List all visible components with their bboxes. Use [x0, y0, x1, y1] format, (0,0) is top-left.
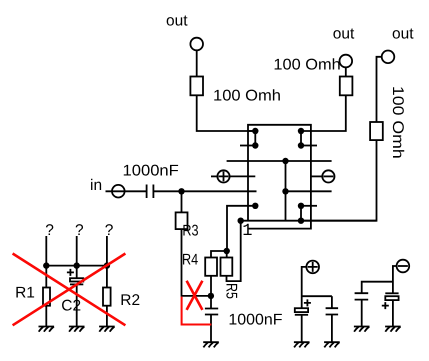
wire net2 vertical	[76, 236, 78, 278]
resistor R4	[205, 258, 217, 276]
svg-text:100 Omh: 100 Omh	[213, 87, 281, 104]
svg-text:in: in	[90, 177, 102, 194]
capacitor 1000nF bottom	[205, 309, 218, 315]
junction dot node R3 top	[178, 188, 184, 194]
ground C2	[69, 327, 85, 332]
IC inner link right rows6-7	[300, 206, 302, 221]
ground bottom cap	[203, 342, 219, 347]
wire node to R3	[181, 191, 183, 212]
svg-text:C2: C2	[61, 298, 81, 315]
ground R1	[39, 327, 55, 332]
IC pin row7 line	[241, 220, 377, 222]
resistor R3	[176, 212, 188, 229]
resistor 100 Omh out1	[190, 77, 203, 96]
wire net1 vertical	[45, 236, 47, 288]
capacitor 1000nF input	[147, 185, 154, 199]
IC inner link right rows1-2	[300, 131, 302, 146]
wire C+ to ground	[301, 315, 303, 342]
capacitor C2+	[326, 308, 339, 314]
wire minus supply branch	[362, 282, 393, 293]
wire minus supply down	[393, 266, 397, 293]
terminal plus supply	[306, 261, 319, 274]
minus bar supply	[398, 265, 408, 267]
plus cross IC left	[219, 172, 229, 182]
wire out2 to R	[345, 67, 347, 76]
ground R2	[99, 327, 115, 332]
IC inner vertical net	[285, 161, 287, 221]
wire C2+ to ground	[331, 315, 333, 342]
IC inner link left rows1-2	[254, 131, 256, 146]
svg-text:1000nF: 1000nF	[228, 312, 282, 329]
IC pin row1 left stub	[248, 130, 255, 132]
terminal minus IC right	[322, 170, 334, 182]
IC pin row2 left stub	[240, 145, 255, 147]
IC pin row4 left stub	[211, 175, 217, 177]
wire R3 down	[182, 229, 211, 296]
resistor 100 Omh out3	[370, 122, 383, 140]
capacitor C2	[70, 278, 83, 284]
wire in stub	[106, 190, 147, 192]
capacitor C- plus sign	[382, 302, 389, 309]
IC pin row5 left segment	[153, 190, 256, 192]
capacitor C+ polarized	[295, 308, 308, 315]
wire R out2 to IC right pin1	[301, 95, 346, 131]
IC pin row6 right stub	[301, 205, 317, 207]
wire plus to IC row4	[230, 175, 256, 177]
wire R out3 to IC right pin7	[301, 140, 377, 221]
svg-text:100 Omh: 100 Omh	[273, 56, 340, 73]
ground C2-	[354, 327, 370, 332]
svg-text:out: out	[333, 26, 355, 43]
terminal out3	[382, 51, 395, 64]
svg-text:100 Omh: 100 Omh	[389, 86, 406, 159]
IC pin row3 crossing line	[227, 160, 332, 162]
IC pin row2 right stub	[301, 145, 317, 147]
ground C2+	[324, 342, 340, 347]
svg-text:R1: R1	[15, 284, 35, 301]
svg-text:R3: R3	[182, 222, 198, 239]
terminal out1	[190, 38, 203, 51]
wire C2- to ground	[361, 300, 363, 327]
wire out3 to R	[377, 57, 382, 122]
capacitor C- polarized	[385, 293, 398, 300]
svg-text:R5: R5	[222, 283, 239, 299]
terminal in	[112, 185, 125, 198]
wire plus supply down	[302, 267, 307, 308]
terminal plus IC left	[217, 170, 229, 182]
capacitor C+ polarized plus sign	[304, 299, 311, 306]
wire R4R5 top	[211, 251, 227, 258]
red X big	[13, 254, 126, 326]
resistor 100 Omh out2	[340, 77, 353, 96]
terminal minus supply	[397, 260, 410, 273]
resistor R2	[103, 288, 111, 306]
wire R5 bottom to pin7	[227, 221, 241, 281]
svg-text:out: out	[392, 26, 414, 43]
junction dot R4R5 top	[224, 248, 230, 254]
svg-text:1: 1	[242, 222, 252, 241]
wire R out1 to IC pin1	[197, 95, 256, 131]
ground C+	[294, 342, 310, 347]
resistor R1	[43, 288, 50, 306]
svg-text:R2: R2	[120, 292, 140, 309]
red wire highlight	[182, 297, 212, 325]
wire C- to ground	[392, 300, 394, 326]
wire C2+ down	[331, 296, 333, 308]
minus bar IC right	[324, 175, 334, 177]
ground C-	[385, 327, 401, 332]
wire R1 to ground	[45, 306, 47, 327]
junction dots bus	[43, 262, 110, 268]
wire joining bus	[46, 265, 107, 267]
wire out1 to R	[196, 50, 198, 76]
capacitor C2-	[355, 293, 369, 299]
svg-text:R4: R4	[182, 252, 198, 269]
resistor R5	[221, 258, 233, 276]
svg-text:out: out	[166, 13, 188, 30]
wire R2 to ground	[106, 306, 108, 327]
wire net3 vertical	[106, 236, 108, 288]
IC pin row5 right segment	[286, 190, 332, 192]
wire plus supply branch	[302, 295, 332, 297]
junction dots IC	[238, 128, 305, 224]
IC pin row4 right stub	[310, 175, 322, 177]
svg-text:1000nF: 1000nF	[123, 162, 179, 179]
wire cap to ground	[210, 315, 212, 342]
red X small	[187, 281, 203, 310]
IC pin row6 left wire	[227, 206, 255, 251]
terminal out2	[340, 55, 353, 68]
IC box U1	[248, 125, 311, 229]
wire R4 bottom to cap	[210, 276, 212, 309]
junction dot R3-R4-cap	[208, 293, 214, 299]
capacitor C2 plus sign	[67, 269, 74, 276]
plus cross supply	[308, 262, 318, 272]
wire C2 to ground	[76, 284, 78, 326]
